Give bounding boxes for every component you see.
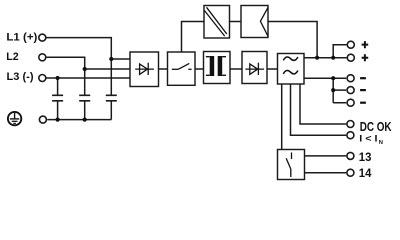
svg-text:13: 13 xyxy=(359,150,372,164)
svg-text:N: N xyxy=(379,140,383,146)
svg-text:L1 (+): L1 (+) xyxy=(6,31,37,43)
svg-text:14: 14 xyxy=(359,166,372,180)
svg-text:DC OK: DC OK xyxy=(360,120,393,134)
svg-text:L2: L2 xyxy=(6,51,18,63)
svg-text:I < I: I < I xyxy=(359,133,377,143)
svg-text:L3 (-): L3 (-) xyxy=(7,71,34,83)
